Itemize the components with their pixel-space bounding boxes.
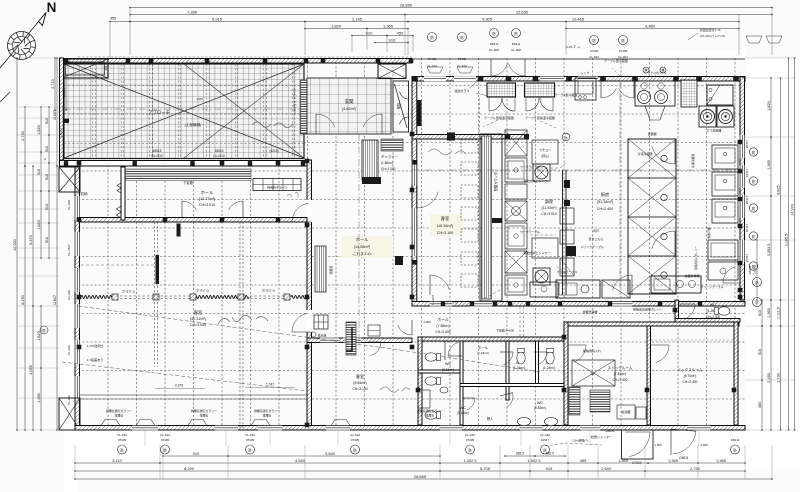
mix room inner dashed bbox=[651, 339, 734, 341]
east wall black marks bbox=[564, 180, 570, 188]
lower-right block walls bbox=[564, 322, 739, 326]
svg-text:28,830: 28,830 bbox=[400, 2, 413, 7]
top-left X porch box bbox=[62, 59, 108, 78]
svg-text:(1.86m²): (1.86m²) bbox=[381, 161, 393, 165]
guest16 dashed seat boxes bbox=[461, 140, 478, 153]
svg-text:(13.77m²): (13.77m²) bbox=[199, 197, 216, 201]
svg-text:物入: 物入 bbox=[487, 416, 494, 421]
svg-text:(7.98m²): (7.98m²) bbox=[436, 324, 449, 328]
svg-text:ホール: ホール bbox=[478, 345, 489, 350]
north arrow head bbox=[39, 13, 47, 26]
svg-text:ラーチ9型冷蔵庫: ラーチ9型冷蔵庫 bbox=[555, 92, 578, 97]
svg-text:9,480: 9,480 bbox=[645, 23, 656, 28]
right exterior wall bbox=[740, 77, 745, 300]
svg-text:2,275: 2,275 bbox=[175, 384, 183, 388]
svg-text:2,640: 2,640 bbox=[601, 466, 612, 471]
svg-text:1,820: 1,820 bbox=[37, 125, 41, 135]
svg-text:455: 455 bbox=[580, 458, 587, 463]
svg-text:食器洗净機: 食器洗净機 bbox=[582, 309, 597, 314]
kitchen centerline dashdot bbox=[412, 169, 745, 171]
top-right X porch box bbox=[378, 64, 406, 79]
svg-text:(持込): (持込) bbox=[541, 153, 549, 158]
svg-text:1,365: 1,365 bbox=[716, 458, 727, 463]
svg-text:N: N bbox=[47, 0, 57, 15]
svg-text:CL=910: CL=910 bbox=[151, 154, 162, 158]
hall/tatami divider wall bbox=[79, 218, 307, 223]
WC doors bbox=[448, 355, 462, 357]
svg-text:客室: 客室 bbox=[441, 215, 449, 222]
north arrow compass bbox=[8, 32, 36, 60]
shower machines bbox=[533, 164, 550, 181]
svg-text:CL-901: CL-901 bbox=[618, 55, 628, 59]
top wall windows right section bbox=[578, 76, 598, 81]
kitchen interior doors bbox=[674, 140, 676, 164]
left top vertical dims bbox=[54, 58, 56, 110]
closet room bbox=[121, 167, 125, 220]
svg-text:25°: 25° bbox=[590, 372, 596, 376]
svg-text:1.7段差あり: 1.7段差あり bbox=[87, 357, 103, 362]
top dim row4 bbox=[305, 28, 367, 30]
top dim row5 bbox=[352, 35, 387, 37]
mask outside envelope bbox=[64, 300, 78, 492]
svg-text:ホール: ホール bbox=[356, 237, 369, 242]
dishwasher row bbox=[556, 280, 600, 298]
svg-text:07405: 07405 bbox=[246, 438, 255, 442]
drain circle bbox=[311, 332, 316, 337]
svg-text:ミックスルーム: ミックスルーム bbox=[678, 367, 703, 372]
svg-text:2,730: 2,730 bbox=[690, 466, 701, 471]
black block near hall east wall bbox=[395, 256, 403, 265]
hall west wall door openings bbox=[306, 200, 312, 222]
handwritten scribble near gallery bbox=[428, 149, 466, 155]
svg-text:CH=3.100: CH=3.100 bbox=[437, 231, 453, 235]
kitchen west pass window bbox=[412, 208, 417, 232]
kitchen dashed leaders bbox=[478, 68, 657, 302]
svg-text:CH=2.400: CH=2.400 bbox=[613, 378, 628, 382]
svg-text:910: 910 bbox=[366, 30, 373, 35]
right wall column blocks bbox=[738, 140, 743, 144]
svg-text:ホール: ホール bbox=[437, 317, 449, 322]
right wall door bbox=[723, 282, 740, 284]
svg-text:915: 915 bbox=[546, 466, 553, 471]
stock room steps bbox=[590, 390, 610, 412]
svg-text:D6011: D6011 bbox=[679, 456, 688, 460]
boiler boxes bbox=[617, 405, 635, 419]
svg-text:CL-910: CL-910 bbox=[67, 345, 71, 355]
svg-text:CL-901: CL-901 bbox=[589, 55, 599, 59]
svg-text:置きこんろ: 置きこんろ bbox=[588, 236, 603, 241]
svg-text:CL=910: CL=910 bbox=[213, 154, 224, 158]
svg-text:7,280: 7,280 bbox=[187, 9, 198, 14]
svg-text:排煙窓: 排煙窓 bbox=[426, 413, 435, 418]
svg-text:CL-910: CL-910 bbox=[427, 64, 437, 68]
WC block outline bbox=[418, 337, 568, 341]
hall76 interior dashes bbox=[418, 340, 460, 342]
svg-text:D7417: D7417 bbox=[745, 168, 749, 177]
svg-text:3,640: 3,640 bbox=[325, 451, 336, 456]
top exterior wall left bbox=[64, 59, 412, 64]
room16 door bbox=[416, 186, 418, 208]
bottom wall vents/windows bbox=[132, 425, 158, 430]
svg-text:4,550: 4,550 bbox=[295, 458, 306, 463]
svg-text:待合椅子(2ﾄﾞｱ): 待合椅子(2ﾄﾞｱ) bbox=[267, 185, 286, 190]
svg-text:排煙窓通気ガラリー: 排煙窓通気ガラリー bbox=[417, 408, 443, 413]
svg-text:ポ-タ(ﾌﾟﾙ): ポ-タ(ﾌﾟﾙ) bbox=[196, 288, 209, 293]
stock room ramp X-hatch bbox=[572, 360, 615, 386]
svg-text:2,730: 2,730 bbox=[21, 131, 25, 141]
svg-text:ギャラリー: ギャラリー bbox=[381, 154, 399, 159]
svg-text:2,185: 2,185 bbox=[767, 373, 771, 383]
right wall sinks bbox=[712, 145, 738, 169]
svg-text:07405: 07405 bbox=[161, 438, 170, 442]
left exterior wall bbox=[75, 166, 80, 430]
svg-text:07405: 07405 bbox=[466, 438, 475, 442]
svg-text:4,095: 4,095 bbox=[29, 365, 33, 375]
svg-text:1,365: 1,365 bbox=[767, 308, 771, 318]
entrance step stripes bbox=[125, 169, 251, 181]
svg-text:吊戸: 吊戸 bbox=[593, 229, 599, 233]
svg-text:調理: 調理 bbox=[545, 198, 553, 204]
svg-text:CL-910: CL-910 bbox=[117, 433, 127, 437]
hall west wall bbox=[307, 160, 312, 426]
svg-text:排煙窓: 排煙窓 bbox=[263, 413, 272, 418]
svg-text:ポ-タ(ﾌﾟﾙ): ポ-タ(ﾌﾟﾙ) bbox=[262, 288, 275, 293]
svg-text:D6005: D6005 bbox=[606, 429, 615, 433]
sight line diagonal lower bbox=[62, 362, 307, 391]
WC 1.26 room walls bbox=[675, 300, 679, 322]
svg-text:(27ｰLDいﾌﾟﾚｲ7ｰ7ﾙ): (27ｰLDいﾌﾟﾚｲ7ｰ7ﾙ) bbox=[700, 33, 725, 38]
snowflake fan circles bbox=[643, 67, 649, 73]
agarikamachi black bar bbox=[417, 100, 422, 126]
svg-text:910: 910 bbox=[758, 349, 762, 355]
top-right vent trapezoids bbox=[746, 36, 762, 43]
path dashed bottom-right bbox=[545, 443, 602, 446]
svg-text:〆: 〆 bbox=[43, 157, 46, 161]
counter guide dashed bbox=[479, 98, 481, 134]
svg-text:1,111.5: 1,111.5 bbox=[776, 307, 780, 319]
svg-text:CL-440: CL-440 bbox=[540, 433, 550, 437]
svg-text:910: 910 bbox=[45, 237, 49, 243]
room16 west wall windows bbox=[412, 160, 417, 185]
svg-text:910: 910 bbox=[758, 310, 762, 316]
svg-text:CH=3.000: CH=3.000 bbox=[190, 323, 206, 327]
svg-text:CH=2.400: CH=2.400 bbox=[597, 207, 613, 211]
svg-text:07405: 07405 bbox=[118, 438, 127, 442]
svg-text:WC: WC bbox=[710, 303, 717, 307]
svg-text:07405: 07405 bbox=[351, 438, 360, 442]
svg-text:D6911: D6911 bbox=[512, 42, 521, 46]
approach diagonals bbox=[64, 64, 304, 158]
stock room door bbox=[568, 344, 586, 346]
svg-text:10,920: 10,920 bbox=[13, 239, 17, 251]
svg-text:玄関: 玄関 bbox=[345, 98, 354, 105]
small box near stair bbox=[368, 325, 380, 336]
svg-text:D7417: D7417 bbox=[745, 139, 749, 148]
svg-text:粒量シャッター: 粒量シャッター bbox=[591, 434, 612, 439]
approach dashed grid overlay bbox=[64, 64, 304, 158]
svg-text:07405: 07405 bbox=[619, 49, 628, 53]
svg-text:CL-910: CL-910 bbox=[245, 433, 255, 437]
right side fire circles bbox=[753, 278, 762, 287]
svg-text:シンク: シンク bbox=[580, 70, 589, 75]
svg-text:1,820: 1,820 bbox=[767, 101, 771, 111]
right wall lower units bbox=[708, 240, 738, 260]
urinal stall walls bbox=[444, 341, 446, 360]
svg-text:CL-1547: CL-1547 bbox=[67, 244, 71, 256]
SW corner column box bbox=[59, 398, 80, 430]
svg-text:CH=3.010: CH=3.010 bbox=[199, 203, 215, 207]
svg-text:(0.52m²): (0.52m²) bbox=[534, 406, 546, 410]
counter strip smoking wall bbox=[480, 134, 502, 301]
bottom wall vent trapezoids bbox=[101, 420, 120, 426]
svg-text:テーブル型恒温冷蔵庫: テーブル型恒温冷蔵庫 bbox=[525, 115, 555, 120]
svg-text:スチコン: スチコン bbox=[539, 147, 551, 152]
svg-text:18515: 18515 bbox=[153, 149, 162, 153]
svg-text:掃除道具置場ガレリー: 掃除道具置場ガレリー bbox=[633, 307, 663, 312]
svg-text:CL-910: CL-910 bbox=[67, 290, 71, 300]
stair rail bar bbox=[346, 322, 356, 355]
svg-text:WC: WC bbox=[460, 406, 466, 410]
svg-text:排煙窓通気ガラリー: 排煙窓通気ガラリー bbox=[191, 408, 217, 413]
svg-text:5,705: 5,705 bbox=[480, 466, 491, 471]
svg-text:D6011: D6011 bbox=[731, 438, 740, 442]
ice chute trapezoid bbox=[645, 106, 665, 120]
svg-text:(11.92m²): (11.92m²) bbox=[541, 206, 556, 210]
east kitchen partition wall bbox=[562, 170, 564, 295]
pass counter row bbox=[530, 282, 558, 297]
svg-text:12,650: 12,650 bbox=[516, 9, 529, 14]
left wall windows bbox=[75, 196, 80, 220]
svg-text:1,820: 1,820 bbox=[59, 128, 63, 138]
svg-text:喫煙室: 喫煙室 bbox=[328, 265, 333, 274]
svg-text:移動式卓上シャワー: 移動式卓上シャワー bbox=[523, 250, 550, 255]
toilets bbox=[425, 353, 441, 361]
svg-text:10517: 10517 bbox=[541, 438, 550, 442]
equip column mid-kitchen bbox=[505, 130, 527, 156]
4-burner range bbox=[635, 81, 675, 106]
top dim row2 bbox=[130, 14, 405, 16]
svg-text:(3.11m²): (3.11m²) bbox=[442, 368, 455, 372]
svg-text:配膳カウンター: 配膳カウンター bbox=[493, 169, 498, 191]
svg-text:(4.62m²): (4.62m²) bbox=[342, 107, 357, 111]
annex room bottom right bbox=[622, 430, 654, 459]
svg-text:455: 455 bbox=[110, 17, 116, 21]
2-burner rice stove bbox=[699, 106, 716, 127]
svg-text:CL-910: CL-910 bbox=[457, 64, 467, 68]
gallery stair shaft bbox=[362, 140, 378, 180]
svg-text:テーブル型恒温冷蔵庫: テーブル型恒温冷蔵庫 bbox=[484, 115, 514, 120]
dark open door leaf bbox=[177, 224, 181, 237]
svg-text:3,110: 3,110 bbox=[112, 458, 122, 463]
svg-text:910: 910 bbox=[45, 204, 49, 210]
kitchen south wall bbox=[412, 302, 745, 307]
svg-text:(9.84m²): (9.84m²) bbox=[353, 381, 367, 385]
svg-text:6,825: 6,825 bbox=[776, 185, 780, 195]
svg-text:倉庫益漫付7ｰ7ﾙ: 倉庫益漫付7ｰ7ﾙ bbox=[700, 27, 721, 32]
svg-text:冷凍冷蔵庫: 冷凍冷蔵庫 bbox=[637, 151, 652, 156]
tatami room zigzag partitions bbox=[81, 296, 117, 299]
bottom dim row3 bbox=[75, 470, 440, 472]
svg-text:D6005: D6005 bbox=[748, 265, 752, 274]
svg-text:1,502.5: 1,502.5 bbox=[527, 458, 541, 463]
right dim columns bbox=[756, 240, 758, 300]
svg-text:455: 455 bbox=[397, 30, 404, 35]
kitchen mid boxes bbox=[532, 140, 558, 164]
svg-text:(上部機械): (上部機械) bbox=[185, 122, 202, 127]
top-right corner unit bbox=[707, 85, 733, 105]
svg-text:ドリンクテーブル: ドリンクテーブル bbox=[580, 244, 604, 249]
svg-text:(6215): (6215) bbox=[269, 149, 278, 153]
mix room door bbox=[651, 344, 669, 346]
svg-text:(51.34m²): (51.34m²) bbox=[597, 200, 614, 204]
svg-text:(1.16m²): (1.16m²) bbox=[457, 411, 469, 415]
kitchen south doors bbox=[429, 275, 431, 295]
room16 west wall columns bbox=[413, 160, 418, 165]
svg-text:CH=3.010: CH=3.010 bbox=[541, 212, 556, 216]
svg-text:2,710: 2,710 bbox=[51, 79, 55, 89]
bottom dim extensions bbox=[74, 445, 76, 479]
right dim extensions bbox=[745, 57, 795, 59]
svg-text:アクリ窓: アクリ窓 bbox=[446, 299, 458, 304]
svg-text:CL-900: CL-900 bbox=[511, 48, 521, 52]
handwritten 15 bbox=[218, 315, 268, 324]
terrace double doors bbox=[490, 59, 492, 76]
svg-text:下足箱: 下足箱 bbox=[183, 180, 193, 185]
svg-text:11647: 11647 bbox=[53, 295, 57, 305]
svg-text:ポ-タ(ﾌﾟﾙ): ポ-タ(ﾌﾟﾙ) bbox=[122, 289, 135, 294]
svg-text:8,290: 8,290 bbox=[184, 466, 195, 471]
hall doors bbox=[292, 221, 311, 223]
top sink bbox=[575, 78, 596, 100]
WC1.16 sink bbox=[418, 390, 430, 408]
svg-text:07405: 07405 bbox=[590, 49, 599, 53]
left dim extensions bbox=[17, 57, 59, 59]
svg-text:682.5: 682.5 bbox=[516, 452, 524, 456]
svg-text:910: 910 bbox=[45, 146, 49, 152]
porch south wall band bbox=[60, 161, 308, 167]
svg-text:(7.45m²): (7.45m²) bbox=[614, 372, 627, 376]
svg-text:掃除用具入ガレリー: 掃除用具入ガレリー bbox=[694, 246, 698, 270]
bottom exterior wall bbox=[75, 426, 745, 431]
svg-text:下足箱 9=600: 下足箱 9=600 bbox=[496, 328, 515, 333]
svg-text:排煙窓通気ガラリー: 排煙窓通気ガラリー bbox=[106, 408, 132, 413]
svg-text:給湯器: 給湯器 bbox=[621, 409, 630, 414]
svg-text:(14.58m²): (14.58m²) bbox=[354, 245, 371, 249]
handwritten 45 bbox=[287, 193, 298, 198]
top dim row6 bbox=[375, 42, 408, 44]
svg-text:CL-910: CL-910 bbox=[160, 433, 170, 437]
svg-text:排煙窓: 排煙窓 bbox=[200, 413, 209, 418]
guest9.84 doors bbox=[367, 341, 381, 343]
approach porch fine grid bbox=[64, 64, 304, 159]
compass diagonal bbox=[0, 13, 46, 69]
kitchen north wall windows and openings bbox=[424, 76, 446, 81]
svg-text:ホール: ホール bbox=[201, 190, 214, 195]
top dimension row 28830 bbox=[130, 7, 772, 9]
svg-text:CL-910: CL-910 bbox=[67, 200, 71, 210]
svg-text:1,365: 1,365 bbox=[668, 458, 679, 463]
svg-text:-これまエの-: -これまエの- bbox=[352, 251, 373, 256]
approach handwritten scribble bbox=[252, 122, 293, 128]
bottom dim row1 bbox=[163, 455, 228, 457]
svg-text:910: 910 bbox=[45, 174, 49, 180]
svg-text:10,465: 10,465 bbox=[572, 16, 585, 21]
svg-text:CH=3.100: CH=3.100 bbox=[352, 387, 367, 391]
svg-text:客室: 客室 bbox=[356, 373, 364, 379]
wash basins bbox=[518, 417, 531, 425]
kitchen south wall openings bbox=[430, 301, 452, 306]
porch south edge thin line bbox=[64, 158, 304, 160]
sight line diagonal upper bbox=[78, 306, 400, 350]
fire circle inside plan bbox=[562, 133, 570, 141]
svg-text:客室: 客室 bbox=[194, 309, 202, 316]
room 16.36 west wall bbox=[412, 81, 417, 302]
top terrace edge line bbox=[412, 58, 745, 60]
entrance room grid bbox=[307, 78, 391, 134]
svg-text:910: 910 bbox=[193, 451, 200, 456]
right wall windows bbox=[740, 135, 745, 158]
svg-text:910: 910 bbox=[389, 37, 396, 42]
svg-text:11607: 11607 bbox=[53, 110, 57, 120]
svg-text:食器洗浄機: 食器洗浄機 bbox=[684, 273, 699, 278]
hall center label highlight bbox=[341, 236, 393, 258]
svg-text:収納: 収納 bbox=[81, 191, 88, 196]
svg-text:1,365: 1,365 bbox=[383, 23, 394, 28]
left porch edge wall bbox=[60, 58, 64, 160]
fridge door arcs bbox=[489, 98, 502, 111]
svg-text:2,185: 2,185 bbox=[352, 16, 363, 21]
guest9.84 scribble bbox=[380, 387, 410, 392]
fridge boxes top bbox=[487, 83, 516, 97]
svg-text:ワークテーブル: ワークテーブル bbox=[520, 229, 540, 234]
svg-text:(40.31m²): (40.31m²) bbox=[190, 317, 207, 321]
approach centerlines bbox=[64, 108, 304, 110]
svg-text:07405: 07405 bbox=[428, 57, 437, 61]
top fire circles and labels bbox=[428, 33, 437, 42]
wall column blocks bbox=[305, 159, 310, 164]
windbreak strip bbox=[393, 81, 409, 132]
svg-text:1,820: 1,820 bbox=[37, 331, 41, 341]
svg-text:1,820: 1,820 bbox=[331, 23, 342, 28]
svg-text:D7417: D7417 bbox=[745, 223, 749, 232]
svg-text:防: 防 bbox=[564, 135, 567, 140]
svg-text:6,370: 6,370 bbox=[29, 235, 33, 245]
svg-text:3157: 3157 bbox=[197, 97, 204, 101]
svg-text:1,365: 1,365 bbox=[618, 458, 629, 463]
left small circle bbox=[40, 326, 48, 334]
waiting bench bbox=[253, 179, 301, 191]
svg-text:8,190: 8,190 bbox=[21, 295, 25, 305]
dish cabinet column bbox=[628, 139, 676, 294]
svg-text:D7417: D7417 bbox=[745, 253, 749, 262]
guest16 label highlight bbox=[430, 214, 463, 236]
ceiling grid (dashed) bbox=[78, 57, 745, 428]
svg-text:2,730: 2,730 bbox=[776, 373, 780, 383]
svg-text:排水溝: 排水溝 bbox=[318, 333, 327, 338]
tatami horizontal partition dashed upper bbox=[81, 264, 154, 266]
svg-text:07405: 07405 bbox=[458, 57, 467, 61]
kitchen north wall y76 bbox=[412, 77, 745, 82]
NW corner column box bbox=[59, 167, 80, 192]
svg-text:CL-900: CL-900 bbox=[489, 48, 499, 52]
svg-text:1,747: 1,747 bbox=[266, 383, 274, 387]
svg-text:2-97ｰ7ﾞｰﾙ: 2-97ｰ7ﾞｰﾙ bbox=[566, 45, 580, 49]
svg-text:1,747建具仕: 1,747建具仕 bbox=[87, 343, 104, 348]
top dim extensions bbox=[129, 8, 131, 56]
gallery stair upper flight bbox=[381, 139, 403, 151]
WC1.26 door bbox=[679, 303, 695, 305]
svg-text:(1.24m²): (1.24m²) bbox=[543, 366, 555, 370]
